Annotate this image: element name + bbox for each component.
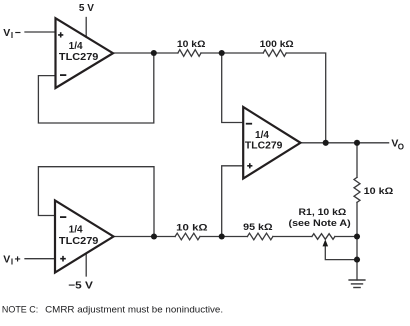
label 100 kOhm <box>260 39 294 50</box>
wire 10k R2 to node D <box>201 52 222 54</box>
svg-text:10 kΩ: 10 kΩ <box>364 186 394 197</box>
op-amp U3 (1/4 TLC279 bottom) <box>55 201 114 273</box>
wire node F to ground <box>356 260 358 280</box>
svg-text:VI+: VI+ <box>3 254 20 267</box>
wire 95k R6 to potentiometer R1 <box>273 236 312 238</box>
label VI+ <box>3 254 20 267</box>
wire VI+ input to U3 + input <box>25 258 55 260</box>
wire U3 feedback loop (node B up, left, down to - input) <box>38 167 154 237</box>
wire node B to 10k R5 <box>154 236 175 238</box>
svg-text:−5 V: −5 V <box>68 280 93 291</box>
svg-text:5 V: 5 V <box>79 3 94 14</box>
svg-text:TLC279: TLC279 <box>59 52 99 63</box>
node B junction dot <box>151 233 157 239</box>
svg-text:95 kΩ: 95 kΩ <box>243 222 273 233</box>
ground <box>348 280 365 288</box>
wire VI- input to op-amp U1 + input <box>25 31 56 33</box>
label VI- <box>3 27 21 40</box>
wire R1 to node E <box>335 236 357 238</box>
output node dot (10k rail) <box>354 140 360 146</box>
wire node C to 95k R6 <box>222 236 248 238</box>
label 5 V <box>79 3 94 14</box>
svg-text:VI−: VI− <box>3 27 21 40</box>
svg-text:100 kΩ: 100 kΩ <box>260 39 294 50</box>
resistor R3 100k <box>263 50 286 57</box>
potentiometer R1 wiper arrow <box>323 239 329 246</box>
wire R1 wiper to node F <box>325 246 357 260</box>
resistor R4 10k (vertical) <box>354 177 360 202</box>
resistor R2 10k (top) <box>178 50 201 57</box>
svg-text:10 kΩ: 10 kΩ <box>176 222 208 233</box>
wire U2 output to VO <box>301 142 389 144</box>
node A junction dot <box>151 50 157 56</box>
svg-text:TLC279: TLC279 <box>59 236 99 247</box>
wire U2 + input down to node C <box>222 166 244 237</box>
label 95 kOhm <box>243 222 273 233</box>
wire node E to node F <box>356 237 358 260</box>
svg-text:1/4: 1/4 <box>255 130 269 141</box>
label VO <box>391 138 404 152</box>
op-amp U1 (1/4 TLC279 top) <box>56 18 114 88</box>
wire U1 output to node A <box>113 52 154 54</box>
resistor R5 10k (bottom) <box>175 233 200 240</box>
wire 10k R5 to node C <box>200 236 222 238</box>
supply -5V wire <box>85 253 87 276</box>
svg-text:VO: VO <box>391 138 404 152</box>
label (see Note A) <box>289 218 351 229</box>
svg-text:TLC279: TLC279 <box>245 141 283 152</box>
svg-text:1/4: 1/4 <box>69 225 83 236</box>
resistor R6 95k <box>247 233 273 240</box>
label -5 V <box>68 280 93 291</box>
node D junction dot <box>219 50 225 56</box>
wire 100k R3 to output node (corner down) <box>286 53 326 143</box>
op-amp U2 (1/4 TLC279 middle) <box>243 107 300 179</box>
svg-text:(see Note A): (see Note A) <box>289 218 351 229</box>
output node dot (100k feedback) <box>323 140 329 146</box>
wire node D to 100k R3 <box>222 52 264 54</box>
potentiometer R1 10k body <box>312 234 335 240</box>
wire U3 output to node B <box>114 236 155 238</box>
wire node D down to U2 - input <box>222 53 244 123</box>
node E junction dot <box>354 233 360 239</box>
svg-text:CMRR adjustment must be nonind: CMRR adjustment must be noninductive. <box>45 304 223 315</box>
label 10 kOhm bottom <box>176 222 208 233</box>
wire node A to 10k R2 <box>154 52 178 54</box>
note C text <box>2 304 223 315</box>
node F junction dot <box>354 257 360 263</box>
node C junction dot <box>219 233 225 239</box>
svg-text:NOTE C:: NOTE C: <box>2 304 38 315</box>
wire 10k R4 to node E <box>356 202 358 236</box>
svg-text:10 kΩ: 10 kΩ <box>177 39 206 50</box>
supply 5V wire <box>85 18 87 38</box>
label 10 kOhm top <box>177 39 206 50</box>
svg-text:R1, 10 kΩ: R1, 10 kΩ <box>299 207 347 218</box>
wire U1 feedback loop (node A down, left, up to - input) <box>38 53 153 123</box>
svg-text:1/4: 1/4 <box>69 41 83 52</box>
label 10 kOhm right vertical <box>364 186 394 197</box>
label R1, 10 kOhm <box>299 207 347 218</box>
wire output node down right rail to 10k R4 <box>356 143 358 178</box>
